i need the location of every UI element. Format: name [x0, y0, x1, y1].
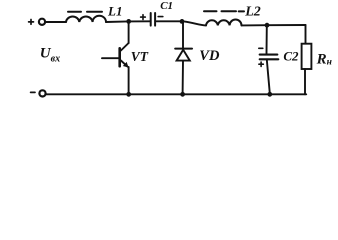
svg-text:Rн: Rн — [316, 52, 332, 68]
input minus terminal mark — [31, 91, 35, 93]
wire L2 to right corner — [242, 24, 306, 26]
minus mark of C2 — [259, 47, 263, 49]
wire VD bottom lead — [182, 61, 184, 94]
svg-text:C2: C2 — [283, 48, 299, 63]
node: L1/C1/VT junction — [126, 19, 131, 24]
wire VD top lead — [182, 23, 184, 48]
wire VD node to L2 — [184, 21, 206, 25]
capacitor C1 — [151, 13, 155, 26]
resistor RH body — [302, 44, 312, 69]
node: C2 top junction — [265, 23, 270, 28]
input plus terminal mark — [29, 20, 34, 25]
wire collector of VT — [128, 23, 130, 43]
wire bottom — [46, 93, 306, 95]
transistor VT — [102, 43, 129, 67]
svg-text:C1: C1 — [160, 0, 173, 12]
wire L1 to C1 — [106, 20, 150, 23]
wire RH to bottom wire — [304, 69, 306, 94]
diode VD — [175, 49, 192, 61]
inductor L1 — [66, 16, 106, 22]
capacitor C2 — [260, 55, 279, 60]
plus mark of C2 — [259, 62, 263, 66]
core of L2 — [204, 10, 244, 12]
wire emitter of VT — [128, 67, 130, 94]
input terminal top — [39, 19, 45, 25]
svg-text:L2: L2 — [244, 5, 261, 20]
svg-text:VT: VT — [131, 49, 149, 64]
node: VT emitter bottom junction — [126, 92, 131, 97]
wire C2 top lead — [266, 26, 268, 54]
inductor L2 — [206, 20, 242, 26]
wire top-left — [45, 21, 66, 23]
wire right corner down to RH — [305, 25, 307, 44]
node: C2 bottom junction — [267, 92, 272, 97]
plus mark of C1 — [141, 15, 146, 20]
node: VD bottom junction — [180, 92, 185, 97]
svg-text:VD: VD — [199, 48, 220, 64]
core of L1 — [68, 11, 102, 13]
wire C2 bottom lead — [267, 60, 270, 94]
node: C1/VD junction — [180, 19, 185, 24]
svg-text:Uвх: Uвх — [40, 45, 60, 64]
svg-text:L1: L1 — [107, 3, 122, 18]
wire C1 to VD node — [156, 20, 182, 22]
input terminal bottom — [39, 90, 45, 96]
minus mark of C1 — [158, 16, 163, 18]
